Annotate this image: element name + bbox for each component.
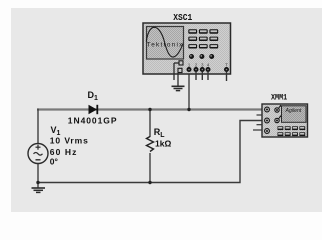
node junction scope ch1 xyxy=(187,108,190,111)
wire V1 bottom lead xyxy=(37,164,39,189)
oscilloscope XSC1 body xyxy=(143,23,231,74)
scope pin labels 1 2 3 4 T xyxy=(188,62,228,67)
XMM1 pin stubs xyxy=(253,115,262,130)
svg-text:60 Hz: 60 Hz xyxy=(50,147,78,157)
scope knobs xyxy=(189,54,214,59)
AC source V1 xyxy=(28,144,48,164)
XMM1 buttons grid 4x2 xyxy=(278,126,306,136)
scope ground hook wire xyxy=(174,62,179,64)
svg-text:1N4001GP: 1N4001GP xyxy=(68,116,118,126)
svg-text:Tektronix: Tektronix xyxy=(147,41,183,48)
node junction V1 ground xyxy=(36,181,39,184)
node junction RL top xyxy=(148,108,151,111)
scope sine trace xyxy=(146,27,183,57)
ground (V1) xyxy=(32,188,46,192)
svg-text:10 Vrms: 10 Vrms xyxy=(50,136,89,146)
svg-text:XSC1: XSC1 xyxy=(173,13,192,23)
svg-text:T: T xyxy=(225,62,228,67)
node junction RL bottom xyxy=(148,181,151,184)
svg-text:0°: 0° xyxy=(50,157,59,167)
ground (scope) xyxy=(172,86,185,90)
svg-text:1kΩ: 1kΩ xyxy=(155,138,171,148)
wire net top (D1 output node, gray) xyxy=(37,108,262,110)
svg-text:XMM1: XMM1 xyxy=(271,94,287,102)
svg-text:Agilent: Agilent xyxy=(285,108,302,114)
scope screen xyxy=(147,27,184,60)
scope pin stubs 2 3 4 T xyxy=(196,72,227,82)
scope G pin glyphs xyxy=(178,61,183,73)
multimeter XMM1 body xyxy=(262,104,308,137)
wire V1 top lead xyxy=(37,109,39,145)
scope buttons grid 3x3 xyxy=(188,29,218,48)
XMM1 Agilent display panel xyxy=(282,106,307,123)
diode D1 xyxy=(89,105,98,114)
wire scope channel1 to node xyxy=(188,72,190,110)
resistor RL xyxy=(147,137,154,152)
XMM1 terminals xyxy=(265,106,282,134)
wire RL bottom lead xyxy=(149,153,151,183)
scope pins xyxy=(187,67,230,72)
wire bottom ground net xyxy=(38,121,262,183)
wire RL top lead xyxy=(149,110,151,138)
